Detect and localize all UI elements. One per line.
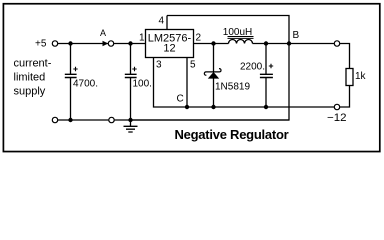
svg-text:2: 2 [196, 33, 202, 44]
wire node A to pin 1 [114, 43, 146, 45]
svg-text:supply: supply [14, 86, 46, 98]
node A arrow [103, 41, 109, 46]
svg-text:B: B [293, 30, 300, 41]
wire pin 4 up [166, 16, 168, 30]
svg-text:12: 12 [163, 43, 175, 55]
svg-text:4700.: 4700. [73, 79, 98, 90]
svg-text:4: 4 [159, 16, 165, 27]
junction C3 top [264, 41, 268, 45]
junction diode top [211, 41, 215, 45]
capacitor 2200 plus [269, 64, 273, 68]
svg-text:2200.: 2200. [240, 62, 265, 73]
diode D1 top lead [213, 44, 215, 73]
svg-text:+5: +5 [35, 39, 47, 50]
terminal -12 [334, 104, 339, 109]
junction C2 top [128, 41, 132, 45]
svg-text:1N5819: 1N5819 [215, 81, 250, 92]
svg-text:current-: current- [14, 58, 52, 70]
svg-text:1k: 1k [355, 71, 367, 82]
capacitor 100 top lead [130, 44, 132, 75]
svg-text:−12: −12 [327, 112, 347, 124]
capacitor 4700 bottom lead [70, 78, 72, 121]
junction pin5 rail [185, 105, 189, 109]
junction C3 rail [264, 105, 268, 109]
terminal B out [334, 41, 339, 46]
diode D1 bottom lead [213, 78, 215, 107]
wire pin 5 down [186, 58, 188, 108]
junction C1 bottom [68, 118, 72, 122]
svg-text:1: 1 [139, 33, 145, 44]
capacitor 2200 top lead [265, 44, 267, 75]
diode D1 triangle [208, 72, 219, 79]
svg-text:100.: 100. [133, 79, 152, 90]
capacitor 100 bottom lead [130, 78, 132, 121]
capacitor 4700 plates [65, 74, 77, 77]
svg-text:5: 5 [190, 60, 196, 71]
svg-text:limited: limited [14, 72, 46, 84]
capacitor 100 plates [125, 74, 137, 77]
node A terminal [108, 41, 113, 46]
wire inductor to B [253, 43, 335, 45]
diode D1 schottky cathode bar [204, 69, 221, 76]
ground [124, 120, 138, 132]
wire pin 3 down and inner rail [154, 58, 335, 108]
wire B terminal to resistor [340, 44, 350, 69]
capacitor 2200 plates [260, 74, 273, 77]
terminal bottom left [52, 117, 57, 122]
terminal bottom mid [109, 117, 114, 122]
node B junction [287, 41, 291, 45]
junction ground [128, 118, 132, 122]
op-amp U1 (LM2576-12 box) [146, 30, 194, 58]
junction C1 top [68, 41, 72, 45]
capacitor 2200 bottom lead [265, 78, 267, 108]
resistor R1 1k [346, 69, 353, 86]
svg-text:A: A [100, 28, 106, 38]
wire top rail left [58, 43, 108, 45]
terminal +5 [52, 41, 57, 46]
junction diode rail [211, 105, 215, 109]
resistor bottom lead [340, 86, 350, 108]
border frame [3, 4, 379, 152]
capacitor 100 plus [132, 67, 136, 71]
wire pin 2 to inductor [194, 43, 229, 45]
svg-text:C: C [177, 94, 184, 105]
capacitor 4700 top lead [70, 44, 72, 75]
wire B down to ground rail [131, 44, 290, 121]
svg-text:Negative Regulator: Negative Regulator [175, 127, 289, 142]
capacitor 4700 plus [73, 67, 77, 71]
bottom rail left [58, 119, 289, 121]
wire top loop [167, 16, 289, 44]
svg-text:3: 3 [156, 60, 162, 71]
